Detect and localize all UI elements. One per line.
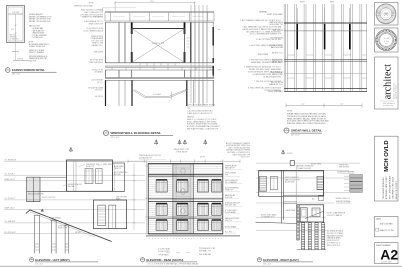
svg-text:1/4" = 1'-0": 1/4" = 1'-0": [263, 263, 271, 265]
shear wall notes block: [287, 111, 329, 126]
svg-text:6x6 PT POST TYP: 6x6 PT POST TYP: [42, 197, 55, 199]
svg-text:SPACING. VERIFY ALL CONDITIONS: SPACING. VERIFY ALL CONDITIONS IN FIELD.: [287, 122, 327, 125]
egress window frame (double rectangle): [7, 6, 25, 43]
svg-text:W/ FTG TYP: W/ FTG TYP: [58, 228, 67, 230]
sheet bottom border: [0, 265, 402, 267]
svg-text:3/4" = 1'-0": 3/4" = 1'-0": [12, 74, 21, 76]
window opening right jamb (dark segments): [184, 22, 186, 34]
left elevation wall base line: [27, 190, 125, 192]
svg-text:T.O. PL 118'-1": T.O. PL 118'-1": [5, 173, 16, 175]
svg-text:16" O.C. TYP: 16" O.C. TYP: [272, 74, 284, 76]
svg-text:architect: architect: [383, 64, 394, 100]
rear elevation stair strip ovals: [181, 168, 185, 174]
svg-text:T.O. FDN 98'-8": T.O. FDN 98'-8": [5, 221, 17, 223]
left elevation mid line: [27, 176, 67, 178]
svg-text:11 JULY 2007: 11 JULY 2007: [381, 262, 391, 264]
right elevation lower block: [297, 205, 324, 222]
vertical dim tick right of trough: [170, 92, 172, 100]
svg-text:PREFIN MTL DRIP: PREFIN MTL DRIP: [86, 164, 100, 166]
svg-text:EXIST DWELLING: EXIST DWELLING: [114, 172, 128, 174]
right elevation north arrow: [282, 150, 285, 155]
window opening with X brace: [132, 29, 185, 63]
right elevation second window: [271, 176, 278, 189]
rear elevation lower row windows: [156, 204, 221, 215]
architect box: [375, 57, 399, 109]
svg-text:EXIST STUD WALL: EXIST STUD WALL: [267, 13, 283, 16]
right elevation door: [300, 208, 307, 222]
svg-text:VINYL SIDING: VINYL SIDING: [103, 164, 114, 166]
right elevation louver window: [317, 176, 323, 189]
egress window vertical dimension line: [15, 14, 17, 60]
svg-text:SUBFL 100'-0": SUBFL 100'-0": [5, 208, 16, 210]
svg-text:3: 3: [286, 129, 287, 131]
lower right extension studs: [191, 5, 207, 103]
right elevation deck rim lines: [283, 202, 297, 204]
svg-text:EXIST FDN WALL: EXIST FDN WALL: [268, 90, 283, 93]
svg-text:B.O. FTG 94'-0": B.O. FTG 94'-0": [5, 232, 17, 234]
rear elevation text under arrows: [174, 149, 190, 153]
rear elevation top dimension line: [128, 160, 240, 162]
left elevation upper block: [67, 160, 113, 191]
svg-text:2x6 STUDS: 2x6 STUDS: [95, 96, 103, 98]
rear elevation right label underlines: [225, 169, 242, 233]
right side legend: hatched swatch stack: [344, 175, 362, 193]
right elevation left wall: [258, 170, 260, 196]
svg-text:HOLDOWN TYP: HOLDOWN TYP: [270, 24, 284, 26]
rear elevation below-grade annotations: [158, 247, 215, 257]
svg-text:EGRESS WINDOW DETAIL: EGRESS WINDOW DETAIL: [12, 68, 45, 72]
right elevation grade line left: [256, 222, 297, 223]
svg-text:4707 - 4709 EASTERN AVE: 4707 - 4709 EASTERN AVE: [388, 175, 391, 199]
svg-text:3'-0": 3'-0": [11, 29, 15, 31]
right elevation top-right texts above roof: [297, 163, 321, 170]
svg-text:30 YR: 30 YR: [200, 157, 205, 159]
svg-text:12" O.C. INTERMEDIATE FRAMING: 12" O.C. INTERMEDIATE FRAMING TYP: [250, 33, 282, 36]
project box: MCH OVLD: [375, 136, 399, 201]
right side legend: top texts: [339, 164, 350, 168]
left elevation lower windows: [98, 205, 116, 229]
svg-text:2x6: 2x6: [218, 29, 221, 31]
left elevation grade diagonal: [26, 210, 112, 242]
svg-text:ATTACHED / NEW CONST: ATTACHED / NEW CONST: [385, 175, 388, 199]
left elevation annotation texts: [28, 164, 128, 234]
left elevation datum lines: [4, 161, 145, 234]
svg-text:registered architect: registered architect: [395, 85, 398, 100]
shear wall bottom dimension line: [286, 105, 362, 107]
svg-text:V.I.F.: V.I.F.: [50, 220, 54, 222]
rear elevation bottom band: [148, 233, 223, 235]
svg-text:EGRESS REQMTS:: EGRESS REQMTS:: [29, 14, 43, 16]
right elevation left hatched window: [259, 176, 266, 191]
egress caption: [6, 68, 57, 76]
svg-text:HOLDOWNS: HOLDOWNS: [258, 54, 269, 56]
rear elevation central stair strip (shaded): [173, 163, 193, 233]
svg-text:MIN NET CLR OPENING 5.7 SF: MIN NET CLR OPENING 5.7 SF: [29, 16, 51, 18]
stamp box 1: [375, 3, 399, 26]
rear elevation upper row windows: [156, 181, 221, 193]
svg-text:(H): (H): [384, 12, 389, 16]
sheet number box: A2: [375, 243, 399, 264]
svg-text:8d AT 6" O.C.: 8d AT 6" O.C.: [272, 52, 283, 55]
svg-text:ELEVATION - REAR (SOUTH): ELEVATION - REAR (SOUTH): [146, 258, 183, 262]
svg-text:- ROOMS U.N.O.: - ROOMS U.N.O.: [32, 37, 45, 39]
svg-text:ALUM TRIM: ALUM TRIM: [285, 181, 295, 184]
right elevation footer line under posts: [297, 249, 326, 251]
svg-text:2x10 HDR: 2x10 HDR: [153, 94, 162, 96]
svg-text:ELEVATION - RIGHT (EAST): ELEVATION - RIGHT (EAST): [263, 258, 299, 262]
left elevation upper block corner trim: [74, 160, 76, 191]
svg-text:NEW: NEW: [330, 2, 334, 4]
lower section studs: [105, 80, 107, 106]
svg-text:7/16 OSB SHTG: 7/16 OSB SHTG: [270, 38, 284, 40]
svg-text:TO REMAIN V.I.F.: TO REMAIN V.I.F.: [261, 216, 275, 219]
right elevation mid annotations: [285, 177, 301, 184]
svg-text:4: 4: [31, 258, 32, 260]
svg-text:VERIFY R.O. W/ MFR: VERIFY R.O. W/ MFR: [29, 50, 45, 52]
svg-text:T.O. RIDGE 128': T.O. RIDGE 128': [5, 159, 18, 161]
svg-text:TYP AT RIDGE: TYP AT RIDGE: [176, 150, 188, 153]
svg-text:SHEAR WALL DETAIL: SHEAR WALL DETAIL: [291, 129, 322, 133]
rear elevation frieze dark band: [148, 174, 223, 176]
svg-text:NOTE:: NOTE:: [89, 2, 95, 4]
svg-text:CONT RIM JOIST W/ (2) ROWS: CONT RIM JOIST W/ (2) ROWS: [80, 14, 103, 16]
svg-text:NORTH: NORTH: [287, 153, 293, 155]
right elevation right wall: [323, 170, 325, 196]
svg-text:U.N.O. V.I.F.: U.N.O. V.I.F.: [241, 157, 251, 159]
left elevation right dimension line: [133, 164, 135, 231]
svg-text:- WINDOW SIZES: - WINDOW SIZES: [32, 33, 45, 35]
svg-text:2x6 FASCIA TYP: 2x6 FASCIA TYP: [139, 157, 153, 160]
left elevation north arrow: [69, 147, 72, 152]
svg-text:EGRESS WINDOW: EGRESS WINDOW: [68, 184, 83, 186]
stamp box 2: [375, 28, 399, 52]
right elevation datum lines: [256, 163, 360, 230]
left elevation lower-right block: [94, 200, 127, 229]
svg-text:2. NAIL SHTG TO ALL BLKG TYP: 2. NAIL SHTG TO ALL BLKG TYP: [187, 112, 213, 115]
svg-text:T.O. PL 109'-1": T.O. PL 109'-1": [5, 198, 16, 200]
svg-text:FDN WALL TYP: FDN WALL TYP: [199, 249, 212, 252]
issue/date box: [375, 217, 399, 237]
svg-text:FIN FLR: FIN FLR: [18, 58, 25, 60]
rear elevation caption: [141, 258, 200, 266]
svg-text:TYP U.N.O.: TYP U.N.O.: [95, 90, 104, 92]
svg-text:4'-0": 4'-0": [301, 104, 305, 106]
svg-text:(2) 2x6 KING STUD W/: (2) 2x6 KING STUD W/: [87, 28, 104, 30]
svg-text:CINCINNATI, OHIO 45226: CINCINNATI, OHIO 45226: [392, 177, 395, 199]
egress ground line: [13, 60, 29, 62]
svg-text:REALITY CK, INC: REALITY CK, INC: [380, 229, 395, 232]
egress notes column: [29, 14, 51, 62]
svg-text:2'-0" CLR: 2'-0" CLR: [12, 12, 20, 14]
svg-text:WINDOW WALL BLOCKING DETAIL: WINDOW WALL BLOCKING DETAIL: [111, 131, 162, 135]
shear wall studs: [284, 4, 366, 91]
svg-text:COMPLY W/ OBC 1026: COMPLY W/ OBC 1026: [29, 46, 46, 48]
svg-text:JOB 07-05 MAR: JOB 07-05 MAR: [380, 222, 394, 225]
shear wall horizontal lines: [284, 23, 367, 24]
svg-text:EXIST: EXIST: [300, 2, 305, 4]
svg-text:SEE NOTES: SEE NOTES: [339, 167, 350, 169]
sill line under opening: [105, 62, 214, 64]
left leader labels for blocking detail: [80, 9, 104, 99]
right elevation corner board (dark hatched): [297, 205, 299, 240]
svg-text:HAMILTON COUNTY: HAMILTON COUNTY: [395, 180, 398, 199]
rear elevation ground line: [146, 235, 240, 237]
left elevation deck posts: [34, 216, 70, 254]
svg-text:NEW DECK BEYOND: NEW DECK BEYOND: [28, 194, 45, 196]
sill cripple ticks: [140, 63, 175, 65]
right side bottom text block: [327, 230, 344, 247]
left elevation grade marker triangle: [41, 209, 45, 212]
svg-text:WHERE REQD PER OBC: WHERE REQD PER OBC: [29, 58, 48, 60]
svg-text:6: 6: [259, 258, 260, 260]
svg-text:SEE PLAN 1/A1: SEE PLAN 1/A1: [199, 253, 211, 256]
svg-text:NOTE:: NOTE:: [287, 111, 293, 113]
svg-text:2x6 SILL PL W/: 2x6 SILL PL W/: [92, 69, 104, 71]
left elevation datum labels: [5, 159, 18, 234]
svg-text:36" MIN: 36" MIN: [75, 232, 82, 234]
right elevation lower window: [312, 208, 320, 217]
svg-text:EXTERIOR FINISHES: EXTERIOR FINISHES: [337, 171, 355, 173]
svg-text:NEW STAIR: NEW STAIR: [286, 209, 296, 212]
svg-text:PROVIDE TEMPERED GL: PROVIDE TEMPERED GL: [29, 56, 48, 58]
blocking detail top dimension line: [115, 2, 195, 12]
svg-text:SEE PLAN FOR WALL LOCATIONS TY: SEE PLAN FOR WALL LOCATIONS TYP: [187, 128, 219, 131]
rear elevation basement row windows: [156, 221, 221, 231]
svg-text:SEE SCHED: SEE SCHED: [94, 51, 104, 53]
right elevation caption: [257, 258, 313, 266]
right elevation mid horizontal: [283, 195, 323, 196]
svg-text:1: 1: [7, 69, 8, 71]
svg-text:NOTE: BLKG AT ALL PANEL EDGES: NOTE: BLKG AT ALL PANEL EDGES: [187, 104, 216, 107]
svg-text:RIDGE VENT: RIDGE VENT: [311, 163, 321, 165]
blocking detail caption: [103, 130, 173, 139]
svg-text:TRIM TYP: TRIM TYP: [114, 168, 121, 170]
svg-text:4280 glendale rd: 4280 glendale rd: [383, 103, 395, 105]
chamfer trough in lower section: [132, 90, 188, 98]
left elevation caption: [30, 258, 99, 266]
svg-text:2: 2: [105, 132, 106, 134]
svg-text:EDGE TYP: EDGE TYP: [86, 166, 94, 168]
svg-text:1/2" = 1'-0": 1/2" = 1'-0": [111, 137, 120, 139]
svg-text:2406 TYP: 2406 TYP: [29, 60, 36, 62]
right elevation corner pair: [281, 170, 283, 223]
shear wall blocking dashes: [287, 55, 366, 78]
svg-text:3/4 PLYWD SHTG: 3/4 PLYWD SHTG: [90, 60, 104, 62]
svg-text:DATE:: DATE:: [376, 218, 382, 221]
left elevation hatched window band: [27, 177, 40, 201]
svg-text:MCH OVLD: MCH OVLD: [384, 140, 390, 171]
right elevation roof line: [259, 169, 324, 171]
svg-text:CONC PIER: CONC PIER: [58, 226, 68, 228]
egress window bottom tick: [12, 50, 19, 52]
right side legend: labels below: [327, 198, 352, 217]
svg-text:5: 5: [142, 258, 143, 260]
left elevation right panel: [112, 163, 124, 191]
shear wall caption: [284, 128, 322, 137]
svg-text:2x6 BLKG TYP: 2x6 BLKG TYP: [152, 43, 165, 45]
right elevation chimney: [290, 161, 294, 166]
svg-text:4'-0": 4'-0": [340, 104, 344, 106]
rear elevation facade outline: [148, 163, 223, 233]
right elevation center wall line: [295, 165, 297, 205]
window opening left jamb (dark segments): [131, 22, 133, 34]
right elevation deck posts hatched: [302, 223, 325, 250]
notes under blocking detail right: [187, 104, 216, 115]
svg-text:GENERAL: GENERAL: [259, 10, 267, 13]
svg-text:TYP AT PATIO: TYP AT PATIO: [158, 254, 170, 257]
rim band segment dividers: [105, 12, 214, 21]
svg-text:LINE OF EXIST: LINE OF EXIST: [116, 197, 127, 199]
rear elevation north arrows: [155, 140, 158, 145]
svg-text:SIMPSON CS16 STRAP: SIMPSON CS16 STRAP: [74, 5, 93, 8]
svg-text:BTWN JOISTS TYP: BTWN JOISTS TYP: [89, 23, 103, 25]
rear elevation band 2: [148, 217, 223, 219]
left elevation leader lines: [45, 164, 103, 218]
svg-text:SLOPE 1/4"/FT: SLOPE 1/4"/FT: [158, 251, 170, 253]
blocking detail top plate lines: [105, 11, 214, 12]
left elevation upper windows: [85, 169, 93, 184]
lower wall studs (short): [106, 70, 214, 78]
svg-text:SIDING: VINYL D4: SIDING: VINYL D4: [336, 198, 350, 200]
svg-text:ELEVATION - LEFT (WEST): ELEVATION - LEFT (WEST): [35, 258, 69, 262]
rear elevation floor band (dark): [148, 199, 223, 202]
svg-text:1/2" = 1'-0": 1/2" = 1'-0": [291, 135, 300, 137]
upper wall studs: [106, 22, 126, 62]
right side studs: [190, 22, 192, 62]
rear elevation siding texture: [148, 167, 223, 232]
svg-text:16" O.C.: 16" O.C.: [97, 82, 104, 84]
svg-text:MIN CLR: MIN CLR: [10, 35, 17, 37]
svg-text:TWO FAMILY DWELLING: TWO FAMILY DWELLING: [382, 177, 385, 199]
rear elevation footing tick row: [149, 237, 223, 239]
rear elevation top-right note block: [226, 142, 251, 159]
rear elevation right label column: [225, 165, 240, 234]
svg-text:1/4" = 1'-0": 1/4" = 1'-0": [35, 263, 43, 265]
right elevation stair stringer diagonal: [305, 211, 324, 218]
svg-text:MIN NET CLR OPG HGT 24 IN: MIN NET CLR OPG HGT 24 IN: [29, 19, 51, 21]
rear elevation left dimension line: [145, 160, 147, 234]
svg-text:MIN SLOPE V.I.F.: MIN SLOPE V.I.F.: [327, 245, 341, 247]
svg-text:PANEL EDGE: PANEL EDGE: [272, 61, 284, 64]
shear wall left leader labels: [267, 13, 284, 93]
egress window sill line: [8, 13, 23, 15]
svg-text:SIMPSON CS16: SIMPSON CS16: [91, 36, 103, 38]
svg-text:EA HOLDOWN: EA HOLDOWN: [271, 46, 284, 49]
second band: [105, 78, 214, 81]
svg-text:TRIM: ALUM WRAP: TRIM: ALUM WRAP: [336, 200, 352, 203]
right elevation A/C unit box: [318, 196, 323, 201]
svg-text:BEYOND: BEYOND: [114, 174, 122, 176]
svg-text:SUBFL 116'-0": SUBFL 116'-0": [5, 179, 16, 181]
shear wall holdown bars (dark): [296, 24, 298, 50]
blocking detail rim band: [105, 21, 214, 22]
svg-text:DIA A.B. 32" O.C.: DIA A.B. 32" O.C.: [269, 83, 284, 86]
rear elevation top-left note: [139, 154, 161, 159]
svg-text:TOP + BOT TYP: TOP + BOT TYP: [91, 40, 103, 42]
sill band: [105, 66, 214, 70]
svg-text:NOTE:: NOTE:: [29, 42, 34, 44]
svg-text:OPENING: OPENING: [10, 37, 18, 39]
svg-text:TO MATCH EXIST: TO MATCH EXIST: [297, 167, 311, 170]
svg-text:A2: A2: [380, 247, 398, 263]
svg-text:COLOR TO MATCH: COLOR TO MATCH: [327, 214, 343, 217]
right elevation walk annotations: [261, 209, 296, 219]
svg-text:12'-0": 12'-0": [150, 1, 154, 3]
svg-text:MIN NET CLR OPG WID 20 IN: MIN NET CLR OPG WID 20 IN: [29, 21, 50, 23]
svg-text:DBL TOP PL: DBL TOP PL: [273, 30, 283, 32]
